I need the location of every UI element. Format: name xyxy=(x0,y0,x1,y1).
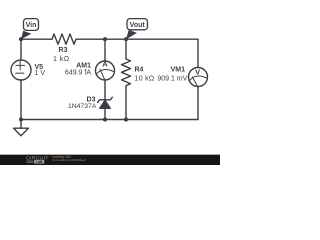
R4 branch bottom junction dot xyxy=(124,117,128,121)
svg-text:http://circuitlab.com/c/bu8m8c: http://circuitlab.com/c/bu8m8c89ae27 xyxy=(52,158,86,162)
svg-text:A: A xyxy=(102,60,108,69)
svg-text:1N4737A: 1N4737A xyxy=(68,103,97,110)
voltage source V5 xyxy=(11,60,31,80)
node B junction dot (Vout) xyxy=(124,37,128,41)
resistor R4 xyxy=(122,59,131,87)
resistor R3 xyxy=(52,34,76,44)
svg-text:909.1 mV: 909.1 mV xyxy=(157,76,187,83)
flag Vin box xyxy=(24,19,39,31)
diode branch bottom junction dot xyxy=(103,117,107,121)
wire bottom rail xyxy=(21,119,198,121)
svg-text:AM1: AM1 xyxy=(76,63,91,70)
wire node A to node B xyxy=(105,38,126,40)
svg-text:R3: R3 xyxy=(59,47,68,54)
svg-text:10 kΩ: 10 kΩ xyxy=(135,76,155,83)
footer logo LAB box xyxy=(27,160,34,162)
wire node B to top-right corner xyxy=(126,38,198,40)
wire left branch bottom (V5 to ground node) xyxy=(20,80,22,120)
wire right branch down to voltmeter VM1 xyxy=(197,39,199,67)
svg-text:Vin: Vin xyxy=(26,22,37,29)
svg-text:LAB: LAB xyxy=(36,160,43,164)
svg-text:649.9 fA: 649.9 fA xyxy=(65,70,91,77)
svg-text:R4: R4 xyxy=(135,66,144,73)
wire R3 to node A xyxy=(76,38,105,40)
ground node junction dot xyxy=(19,117,23,121)
wire ammeter branch top (node A to AM1) xyxy=(104,39,106,61)
flag Vin pointer xyxy=(21,31,32,40)
zener diode D3 cathode bar xyxy=(98,97,113,102)
flag Vout pointer xyxy=(126,30,137,39)
ground symbol xyxy=(14,120,29,136)
wire R4 to bottom rail xyxy=(125,87,127,120)
svg-text:VM1: VM1 xyxy=(171,66,186,73)
voltmeter VM1 xyxy=(189,68,208,87)
wire R4 branch top (node B to R4) xyxy=(125,39,127,59)
wire voltmeter VM1 to bottom-right corner xyxy=(197,87,199,120)
wire top-left from node Vin to R3 xyxy=(21,38,52,40)
wire AM1 to diode D3 xyxy=(104,80,106,100)
svg-text:V: V xyxy=(195,68,200,77)
flag Vout box xyxy=(127,19,148,30)
footer bar xyxy=(0,155,220,165)
node A junction dot xyxy=(103,37,107,41)
ammeter AM1 xyxy=(96,61,115,80)
wire diode D3 to bottom rail xyxy=(104,108,106,119)
svg-text:1 V: 1 V xyxy=(35,70,46,77)
svg-text:1 kΩ: 1 kΩ xyxy=(53,56,70,63)
zener diode D3 anode triangle xyxy=(100,100,110,108)
wire left branch top (Vin node to V5) xyxy=(20,39,22,60)
node Vin junction dot xyxy=(19,37,23,41)
svg-text:Vout: Vout xyxy=(130,22,146,29)
